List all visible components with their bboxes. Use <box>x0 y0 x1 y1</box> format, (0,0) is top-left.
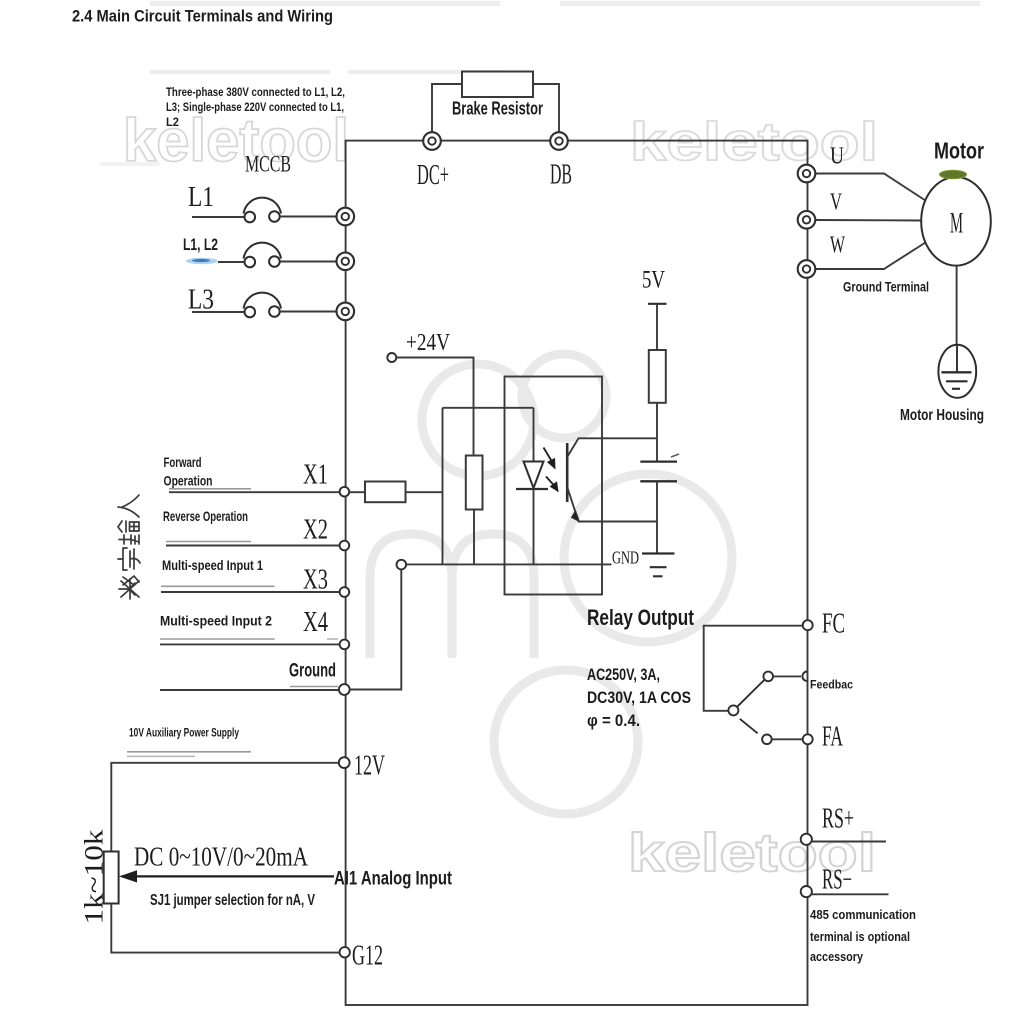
svg-text:M: M <box>950 207 963 240</box>
svg-text:Feedbac: Feedbac <box>810 678 853 692</box>
svg-text:Ground: Ground <box>289 661 336 682</box>
wire RS+ <box>812 841 886 843</box>
terminal T on edge <box>337 303 355 321</box>
resistor pull-up 24V <box>466 456 483 510</box>
svg-text:DC 0~10V/0~20mA: DC 0~10V/0~20mA <box>134 842 308 872</box>
wire V to motor <box>815 219 922 222</box>
capacitor C1 bottom plate <box>640 480 677 482</box>
terminal U <box>798 165 816 183</box>
terminal DC+ <box>423 132 441 150</box>
svg-text:Multi-speed Input 2: Multi-speed Input 2 <box>160 613 272 629</box>
terminal RS- <box>801 886 812 897</box>
wire U to motor <box>815 174 927 202</box>
5V terminal bar <box>648 303 667 305</box>
relay lower contact <box>762 735 772 745</box>
wire L1 left <box>192 216 245 218</box>
underline X4 <box>160 638 275 640</box>
svg-text:RS+: RS+ <box>822 804 854 835</box>
terminal V <box>798 211 816 229</box>
wire pot to G12 <box>111 904 339 953</box>
motor green mark <box>940 170 967 178</box>
LED D1 triangle <box>524 462 544 489</box>
wire inner bottom rail <box>406 563 611 565</box>
phototransistor Q1 base bar <box>566 443 569 502</box>
node junction circle <box>397 560 407 570</box>
wire L3 left <box>192 311 245 313</box>
terminal +24V <box>387 353 396 362</box>
svg-text:RS−: RS− <box>822 865 852 896</box>
svg-text:MCCB: MCCB <box>245 152 291 177</box>
svg-text:U: U <box>830 144 844 170</box>
LED cathode bar <box>516 488 548 490</box>
svg-text:Three-phase 380V connected to: Three-phase 380V connected to L1, L2, <box>166 85 345 99</box>
note three-phase text block <box>166 85 345 129</box>
terminal X2 <box>340 541 350 551</box>
wire resistor to common rail <box>473 510 475 565</box>
wire 12V to pot <box>111 763 339 852</box>
svg-text:Ground Terminal: Ground Terminal <box>843 279 929 295</box>
svg-text:L1, L2: L1, L2 <box>183 235 218 254</box>
svg-text:5V: 5V <box>642 267 665 294</box>
svg-text:X2: X2 <box>303 515 328 546</box>
svg-text:Brake Resistor: Brake Resistor <box>452 99 543 119</box>
svg-text:Motor: Motor <box>934 138 984 164</box>
underline X3 <box>161 585 275 587</box>
relay open arm <box>740 719 758 734</box>
wire L2 left <box>218 261 245 263</box>
svg-text:FA: FA <box>822 722 843 753</box>
svg-text:Forward: Forward <box>164 454 202 470</box>
svg-text:AI1 Analog Input: AI1 Analog Input <box>334 869 453 890</box>
underline X2 <box>166 541 251 543</box>
svg-text:X1: X1 <box>303 460 328 491</box>
ghost gray streaks <box>100 1 980 166</box>
note 485 communication <box>810 907 916 964</box>
Q1 collector <box>567 438 657 457</box>
wire resistor to drop <box>406 491 443 493</box>
terminal FC <box>803 620 813 630</box>
svg-text:L3: L3 <box>188 285 214 316</box>
light arrow 1 <box>544 448 555 468</box>
svg-text:DC+: DC+ <box>417 159 449 191</box>
terminal 12V <box>339 757 350 768</box>
inverter main box <box>346 141 808 1005</box>
svg-text:L3; Single-phase 220V connecte: L3; Single-phase 220V connected to L1, <box>166 100 344 114</box>
breaker L3 contacts <box>245 306 280 317</box>
svg-text:Motor Housing: Motor Housing <box>900 407 984 424</box>
Q1 emitter with arrow <box>567 487 657 522</box>
terminal W <box>798 260 816 278</box>
breaker L2 contacts <box>245 256 280 267</box>
relay arm to feedback <box>737 680 764 707</box>
svg-text:W: W <box>830 233 845 259</box>
pot wiper arrow <box>121 871 335 882</box>
terminal X1 <box>340 487 350 497</box>
terminal FA <box>803 734 813 744</box>
relay common contact <box>728 705 738 715</box>
resistor 5V pull-up <box>649 350 666 403</box>
underline X4 right stub <box>327 638 338 640</box>
resistor Brake Resistor <box>462 72 533 98</box>
ground symbol GND <box>642 554 675 577</box>
wire FA <box>772 738 803 740</box>
svg-text:485 communication: 485 communication <box>810 907 916 922</box>
svg-text:1k~10k: 1k~10k <box>80 830 109 925</box>
svg-text:AC250V, 3A,: AC250V, 3A, <box>587 665 660 684</box>
svg-text:L1: L1 <box>188 182 214 213</box>
wire L2 right <box>280 261 337 263</box>
wire X4 <box>160 643 340 645</box>
potentiometer RP1 body <box>104 852 119 904</box>
breaker L1 arc <box>244 198 282 214</box>
wire W to motor <box>815 242 927 270</box>
svg-text:FC: FC <box>822 609 845 640</box>
LED cathode wire <box>533 489 535 564</box>
wire L3 right <box>280 311 337 313</box>
wire RS- <box>812 893 889 895</box>
svg-text:2.4 Main Circuit Terminals and: 2.4 Main Circuit Terminals and Wiring <box>72 7 333 26</box>
svg-text:DB: DB <box>550 159 572 191</box>
underline Ground <box>290 686 338 688</box>
feedback hook <box>802 672 807 682</box>
resistor X1 series <box>365 482 406 503</box>
svg-text:10V Auxiliary Power Supply: 10V Auxiliary Power Supply <box>129 726 239 740</box>
capacitor C1 top plate <box>640 460 677 462</box>
terminal Ground <box>339 684 350 695</box>
label digital input (Chinese) rotated <box>118 495 140 599</box>
svg-text:X3: X3 <box>303 565 328 596</box>
svg-text:Relay Output: Relay Output <box>587 605 695 630</box>
breaker L1 contacts <box>245 211 280 222</box>
wire DC+ riser <box>432 84 462 133</box>
terminal X4 <box>340 640 350 650</box>
wire cap to ground <box>656 481 658 553</box>
terminal DB <box>550 132 568 150</box>
wire X1 into resistor <box>349 491 365 493</box>
svg-text:φ = 0.4.: φ = 0.4. <box>587 711 640 730</box>
wire feedback <box>773 675 801 677</box>
relay upper contact <box>763 672 773 682</box>
wire +24V feed <box>396 358 473 456</box>
svg-text:L2: L2 <box>166 115 179 129</box>
wire Ground to node riser <box>350 569 402 690</box>
svg-text:+24V: +24V <box>406 330 451 356</box>
ground symbol in housing <box>942 345 972 389</box>
svg-text:12V: 12V <box>354 751 385 782</box>
wire inner left drop <box>442 408 444 565</box>
svg-text:accessory: accessory <box>810 949 864 964</box>
terminal G12 <box>340 947 350 957</box>
blue smudge <box>186 258 218 264</box>
svg-text:DC30V, 1A COS: DC30V, 1A COS <box>587 688 691 707</box>
terminal R on edge <box>337 208 355 226</box>
wire resistor to cap <box>656 403 658 462</box>
breaker L2 arc <box>244 243 282 259</box>
wire FC <box>704 626 803 711</box>
svg-text:V: V <box>830 190 842 216</box>
terminal S on edge <box>337 252 355 270</box>
wire motor to housing <box>956 266 958 345</box>
wire X1 <box>169 491 340 493</box>
svg-text:Multi-speed Input 1: Multi-speed Input 1 <box>162 557 263 573</box>
svg-text:terminal is optional: terminal is optional <box>810 929 910 944</box>
cap tick <box>671 454 679 457</box>
LED anode wire <box>533 408 535 462</box>
wire DB riser <box>533 84 559 133</box>
underline 10V aux 2 <box>127 755 195 757</box>
wire Ground left <box>160 689 339 691</box>
wire X2 <box>166 545 340 547</box>
svg-text:X4: X4 <box>303 607 328 638</box>
svg-text:SJ1 jumper selection for nA, V: SJ1 jumper selection for nA, V <box>150 892 315 909</box>
wire inner top rail <box>443 407 534 409</box>
motor M1 body <box>921 177 991 266</box>
watermark logo arcs center <box>370 354 732 814</box>
optocoupler U1 box <box>505 377 603 595</box>
svg-text:Reverse Operation: Reverse Operation <box>163 508 248 524</box>
light arrow 2 <box>546 477 558 491</box>
motor housing earth circle <box>938 345 976 398</box>
wire X3 <box>161 591 340 593</box>
underline X1 <box>169 488 251 490</box>
svg-text:Operation: Operation <box>164 473 213 489</box>
underline 10V aux 1 <box>127 751 251 753</box>
wire L1 right <box>280 216 337 218</box>
terminal X3 <box>340 587 350 597</box>
svg-text:GND: GND <box>612 548 639 568</box>
breaker L3 arc <box>244 293 282 309</box>
wire 5V to resistor <box>656 304 658 350</box>
terminal RS+ <box>801 834 812 845</box>
svg-text:G12: G12 <box>352 941 383 972</box>
